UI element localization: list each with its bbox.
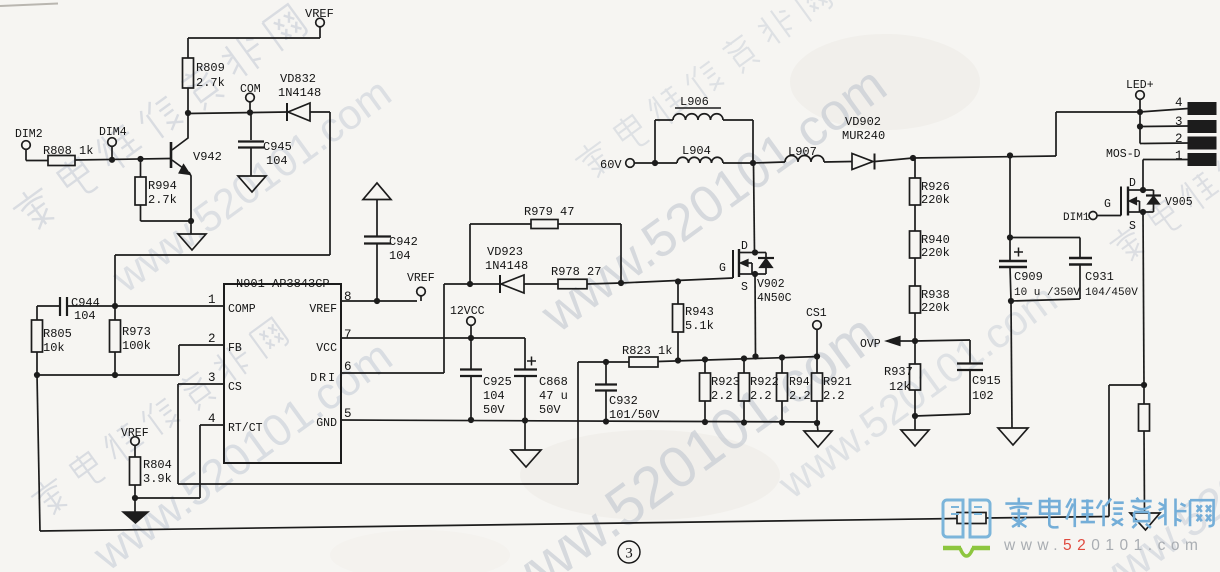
connector pin 4 <box>1140 96 1216 115</box>
svg-text:VD923: VD923 <box>487 245 523 259</box>
svg-text:2.7k: 2.7k <box>148 193 177 207</box>
svg-text:www.520101.com: www.520101.com <box>530 56 897 345</box>
svg-text:RT/CT: RT/CT <box>228 422 263 435</box>
svg-text:104: 104 <box>266 154 288 168</box>
transistor Q2: MOSFET V905 <box>1104 177 1193 233</box>
svg-text:V905: V905 <box>1165 196 1193 209</box>
inductor L904 <box>677 144 756 166</box>
wire FB divider rail <box>34 352 179 378</box>
svg-text:8: 8 <box>344 290 352 304</box>
svg-text:R823 1k: R823 1k <box>622 344 672 358</box>
ground (C945) <box>238 176 266 192</box>
svg-text:3.9k: 3.9k <box>143 472 172 486</box>
resistor R804 3.9k <box>130 445 172 512</box>
svg-text:R994: R994 <box>148 179 177 193</box>
capacitor C945 104 <box>238 113 292 177</box>
svg-text:VREF: VREF <box>309 303 337 316</box>
svg-text:220k: 220k <box>921 193 950 207</box>
svg-text:DIM1: DIM1 <box>1063 212 1090 224</box>
svg-text:R804: R804 <box>143 458 172 472</box>
wire RT/CT pin 4 <box>135 425 224 498</box>
connector pin 2 <box>1140 127 1216 150</box>
wire pin5 GND rail <box>341 417 820 425</box>
svg-text:100k: 100k <box>122 339 151 353</box>
terminal DIM2 <box>15 128 43 149</box>
capacitor C944 104 <box>37 296 100 323</box>
svg-text:R923: R923 <box>711 375 740 389</box>
resistor (unlabeled, bottom rail) <box>957 513 986 524</box>
wire V905 source down <box>1141 212 1147 388</box>
svg-text:C942: C942 <box>389 235 418 249</box>
svg-text:3: 3 <box>1175 115 1183 129</box>
svg-text:FB: FB <box>228 342 242 355</box>
svg-text:D: D <box>741 240 748 253</box>
svg-text:220k: 220k <box>921 301 950 315</box>
wire 60V node <box>635 160 678 166</box>
svg-text:1: 1 <box>1175 149 1183 163</box>
node base junction <box>137 156 143 162</box>
terminal 12VCC <box>450 305 485 338</box>
terminal CS1 <box>806 307 827 357</box>
svg-text:2: 2 <box>1175 132 1183 146</box>
wire output rail <box>910 109 1143 161</box>
resistor R978 27 <box>524 265 624 289</box>
inductor L906 <box>655 95 753 163</box>
svg-text:C925: C925 <box>483 375 512 389</box>
resistor R921 2.2 <box>812 357 852 427</box>
ground (C868) <box>511 421 541 468</box>
svg-text:R937: R937 <box>884 365 913 379</box>
svg-text:www.520101.com: www.520101.com <box>1003 537 1203 554</box>
ground (emitter) <box>178 221 206 250</box>
capacitor C868 47u 50V <box>514 338 568 420</box>
svg-text:4: 4 <box>208 412 216 426</box>
op-amp U1: IC N901 AP3843CP <box>224 277 341 463</box>
svg-text:L906: L906 <box>680 95 709 109</box>
svg-text:L907: L907 <box>788 145 817 159</box>
wire VD832 anode to COMP node <box>115 112 330 306</box>
svg-text:D: D <box>1129 177 1136 190</box>
svg-text:L904: L904 <box>682 144 711 158</box>
wire pin7 VCC <box>341 335 525 341</box>
ground (C909) <box>998 301 1028 445</box>
svg-text:C931: C931 <box>1085 270 1114 284</box>
svg-text:VD902: VD902 <box>845 115 881 129</box>
svg-text:DIM2: DIM2 <box>15 128 43 141</box>
svg-text:60V: 60V <box>600 158 622 172</box>
svg-text:101/50V: 101/50V <box>609 408 660 422</box>
transistor Q1: MOSFET V902 4N50C <box>719 240 792 305</box>
svg-text:2.2: 2.2 <box>711 389 733 403</box>
svg-text:5: 5 <box>344 407 352 421</box>
svg-text:C945: C945 <box>263 140 292 154</box>
terminal VREF (top) <box>305 7 334 27</box>
diode VD923 1N4148 <box>470 245 528 293</box>
wire FB riser <box>179 345 224 375</box>
resistor R940 220k <box>910 205 950 260</box>
wire R994 to emitter node <box>141 205 195 224</box>
svg-text:R808 1k: R808 1k <box>43 144 93 158</box>
page number 3 <box>618 541 640 563</box>
svg-text:2.2: 2.2 <box>750 389 772 403</box>
svg-text:R922: R922 <box>750 375 779 389</box>
resistor R923 2.2 <box>700 360 740 426</box>
svg-text:104: 104 <box>389 249 411 263</box>
connector pin 1 MOS-D <box>1106 148 1216 193</box>
svg-text:5.1k: 5.1k <box>685 319 714 333</box>
capacitor C942 104 <box>364 199 418 301</box>
wire collector rail to COM <box>188 112 287 114</box>
svg-text:2.2: 2.2 <box>789 389 811 403</box>
wire C944 to COMP pin <box>67 303 224 309</box>
svg-text:1N4148: 1N4148 <box>278 86 321 100</box>
wire sense rail <box>658 353 820 363</box>
terminal VREF (pin8) <box>407 272 435 301</box>
scan artifact line <box>0 4 58 7</box>
svg-text:S: S <box>741 281 748 294</box>
svg-text:VD832: VD832 <box>280 72 316 86</box>
terminal VREF (R804) <box>121 427 149 445</box>
svg-text:10 u /350V: 10 u /350V <box>1014 287 1080 299</box>
svg-text:R973: R973 <box>122 325 151 339</box>
svg-text:S: S <box>1129 220 1136 233</box>
svg-text:MOS-D: MOS-D <box>1106 148 1141 161</box>
svg-text:6: 6 <box>344 360 352 374</box>
resistor R937 12k <box>884 341 921 419</box>
svg-text:DRI: DRI <box>310 372 337 385</box>
resistor R938 220k <box>910 258 950 315</box>
IC pin labels <box>228 303 337 435</box>
wire pin8 VREF <box>341 298 417 304</box>
svg-text:50V: 50V <box>539 403 561 417</box>
svg-text:C909: C909 <box>1014 270 1043 284</box>
svg-text:N901 AP3843CP: N901 AP3843CP <box>236 277 330 291</box>
svg-text:10k: 10k <box>43 341 65 355</box>
resistor R922 2.2 <box>739 359 779 426</box>
resistor R979 47 <box>470 205 621 284</box>
svg-text:R809: R809 <box>196 61 225 75</box>
node OVP with arrow <box>860 313 918 351</box>
diode VD902 MUR240 <box>842 115 913 170</box>
IC pin numbers <box>208 290 352 426</box>
svg-text:R940: R940 <box>921 233 950 247</box>
svg-text:12k: 12k <box>889 380 911 394</box>
svg-text:47 u: 47 u <box>539 389 568 403</box>
svg-text:R943: R943 <box>685 305 714 319</box>
svg-text:C944: C944 <box>71 296 100 310</box>
svg-text:2.2: 2.2 <box>823 389 845 403</box>
scan shading <box>330 34 980 572</box>
svg-text:COMP: COMP <box>228 303 256 316</box>
svg-text:1N4148: 1N4148 <box>485 259 528 273</box>
terminal COM <box>240 83 261 116</box>
ground (arrow, bottom right) <box>1130 513 1160 530</box>
resistor R994 2.7k <box>135 159 177 207</box>
ground (R921) <box>804 423 832 447</box>
terminal LED+ <box>1126 79 1154 112</box>
wire feedback tap <box>1109 385 1144 517</box>
diode VD832 1N4148 <box>278 72 321 121</box>
wire R809 to collector node <box>185 88 191 116</box>
capacitor C915 102 <box>915 340 1001 416</box>
wire V902 drain <box>754 163 755 253</box>
svg-text:3: 3 <box>625 546 633 562</box>
svg-text:R94: R94 <box>789 376 810 389</box>
resistor (unlabeled, source) <box>1139 385 1150 513</box>
svg-text:102: 102 <box>972 389 994 403</box>
svg-text:CS: CS <box>228 381 242 394</box>
resistor R94 2.2 <box>777 358 811 426</box>
svg-text:220k: 220k <box>921 246 950 260</box>
capacitor C925 104 50V <box>460 338 512 420</box>
svg-text:G: G <box>1104 198 1111 211</box>
svg-text:V902: V902 <box>757 278 785 291</box>
logo book icon <box>943 500 990 537</box>
wire DIM2 to R808 <box>26 149 48 161</box>
svg-text:MUR240: MUR240 <box>842 129 885 143</box>
svg-text:G: G <box>719 262 726 275</box>
svg-text:R938: R938 <box>921 288 950 302</box>
wire pin6 DRI riser <box>341 281 473 373</box>
svg-text:12VCC: 12VCC <box>450 305 485 318</box>
svg-text:3: 3 <box>208 371 216 385</box>
terminal DIM1 <box>1063 212 1121 225</box>
svg-text:R979 47: R979 47 <box>524 205 574 219</box>
logo green ribbon <box>943 548 990 556</box>
svg-text:OVP: OVP <box>860 338 881 351</box>
ground (R937) <box>901 416 929 446</box>
svg-text:104: 104 <box>483 389 505 403</box>
capacitor C909 10u/350V <box>999 152 1080 304</box>
terminal 60V <box>600 158 634 172</box>
svg-text:4: 4 <box>1175 96 1183 110</box>
capacitor C931 104/450V <box>1010 238 1138 302</box>
connector pin 3 <box>1137 112 1216 133</box>
svg-text:C932: C932 <box>609 394 638 408</box>
svg-text:104: 104 <box>74 309 96 323</box>
svg-text:R926: R926 <box>921 180 950 194</box>
transistor V942 <box>171 113 222 221</box>
svg-text:VREF: VREF <box>407 272 435 285</box>
resistor R809 2.7k <box>183 58 225 90</box>
terminal DIM4 <box>99 126 127 146</box>
ground (R804, filled) <box>123 512 148 523</box>
svg-text:VCC: VCC <box>316 342 337 355</box>
resistor R973 100k <box>110 306 151 353</box>
wire gate <box>621 278 733 285</box>
inductor L907 <box>753 145 852 163</box>
logo text CJK <box>1005 498 1213 528</box>
svg-text:104/450V: 104/450V <box>1085 287 1138 299</box>
resistor R926 220k <box>910 158 950 207</box>
wire base <box>75 159 170 161</box>
wire CS pin 3 <box>178 362 629 484</box>
resistor R805 10k <box>32 306 72 355</box>
svg-text:C868: C868 <box>539 375 568 389</box>
svg-text:2.7k: 2.7k <box>196 76 225 90</box>
resistor R808 1k <box>43 144 93 166</box>
svg-text:R805: R805 <box>43 327 72 341</box>
svg-text:R978 27: R978 27 <box>551 265 601 279</box>
resistor R943 5.1k <box>673 282 714 359</box>
wire bottom feedback rail <box>37 375 1109 531</box>
svg-text:2: 2 <box>208 332 216 346</box>
svg-text:V942: V942 <box>193 150 222 164</box>
svg-text:CS1: CS1 <box>806 307 827 320</box>
wire VREF to R809 <box>188 27 320 58</box>
svg-text:50V: 50V <box>483 403 505 417</box>
wire DIM4 stem <box>109 147 115 163</box>
svg-text:7: 7 <box>344 328 352 342</box>
resistor R823 1k <box>622 344 672 367</box>
svg-text:GND: GND <box>316 417 337 430</box>
svg-text:1: 1 <box>208 293 216 307</box>
up arrow symbol (C942) <box>363 183 391 200</box>
svg-text:C915: C915 <box>972 374 1001 388</box>
svg-text:R921: R921 <box>823 375 852 389</box>
capacitor C932 101/50V <box>595 359 660 422</box>
svg-text:4N50C: 4N50C <box>757 292 792 305</box>
wire V902 source <box>752 274 758 360</box>
